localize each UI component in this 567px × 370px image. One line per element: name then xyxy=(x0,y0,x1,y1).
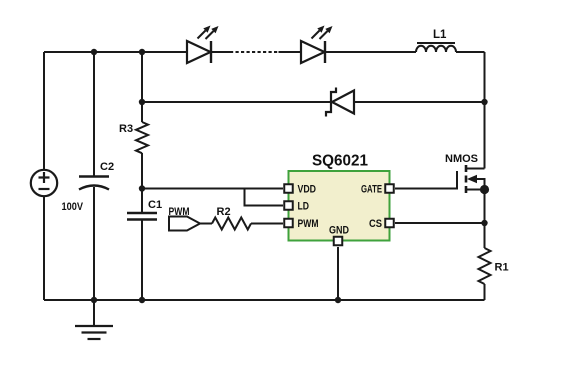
LED D2 xyxy=(301,26,333,64)
wire R3 column to resistor xyxy=(141,102,143,122)
svg-text:GATE: GATE xyxy=(361,184,382,196)
svg-text:R3: R3 xyxy=(119,123,133,135)
resistor R3 xyxy=(136,122,148,153)
pin VDD xyxy=(284,184,293,193)
svg-text:PWM: PWM xyxy=(169,206,190,218)
capacitor C2 xyxy=(79,177,109,190)
svg-text:C1: C1 xyxy=(148,199,162,211)
IC U1 SQ6021 body xyxy=(289,171,390,241)
pin LD xyxy=(284,201,293,210)
port PWM input flag xyxy=(169,217,200,231)
junction dot VDD node xyxy=(139,185,145,191)
transistor Q1 NMOS xyxy=(466,165,489,194)
wire left column upper xyxy=(43,52,45,170)
voltage source V1 100V xyxy=(31,170,57,196)
svg-text:LD: LD xyxy=(298,201,310,213)
wire NMOS source to CS node xyxy=(484,190,486,249)
wire LD branch xyxy=(245,189,284,206)
wire top rail left segment xyxy=(44,51,187,53)
wire PWM flag to R2 xyxy=(200,223,212,225)
capacitor C1 xyxy=(127,213,157,220)
pin CS xyxy=(385,219,394,228)
wire GATE net xyxy=(395,171,457,189)
svg-text:NMOS: NMOS xyxy=(445,153,478,165)
svg-text:R2: R2 xyxy=(217,206,231,218)
svg-text:VDD: VDD xyxy=(298,184,317,196)
LED D1 xyxy=(187,26,219,64)
svg-text:100V: 100V xyxy=(62,201,84,213)
node A junction dot (top rail / C2) xyxy=(91,49,97,55)
svg-text:GND: GND xyxy=(329,225,349,237)
wire right column upper xyxy=(484,52,486,169)
svg-text:SQ6021: SQ6021 xyxy=(312,153,368,170)
svg-text:CS: CS xyxy=(369,218,382,230)
wire second rail to zener xyxy=(142,101,331,103)
wire dashed LED string xyxy=(230,51,279,53)
wire bottom rail xyxy=(44,299,485,301)
wire dashed end to LED D2 xyxy=(279,51,302,53)
pin GATE xyxy=(385,184,394,193)
wire VDD node to C1 xyxy=(141,189,143,214)
wire C1 to bottom rail xyxy=(141,220,143,301)
wire LED D2 to L1 xyxy=(325,51,416,53)
resistor R1 xyxy=(479,248,491,284)
junction dot GND stem / bottom rail xyxy=(335,297,341,303)
inductor L1 xyxy=(416,43,456,52)
wire zener to right column xyxy=(354,101,485,103)
junction dot top rail / R3 column xyxy=(139,49,145,55)
junction dot C2/bottom rail xyxy=(91,297,97,303)
pin PWM xyxy=(284,219,293,228)
wire C2 column lower xyxy=(93,187,95,300)
junction dot right column / second rail xyxy=(481,99,487,105)
wire R2 to PWM pin xyxy=(251,223,283,225)
wire R1 to bottom rail xyxy=(484,284,486,300)
svg-text:C2: C2 xyxy=(100,161,114,173)
pin GND xyxy=(334,237,343,246)
svg-text:R1: R1 xyxy=(495,262,509,274)
wire R3 to VDD node xyxy=(141,153,143,189)
wire GND pin stem xyxy=(337,247,339,300)
wire L1 to right column xyxy=(456,51,485,53)
wire C2 column upper xyxy=(93,52,95,176)
junction dot C1/bottom rail xyxy=(139,297,145,303)
junction dot R3 column / second rail xyxy=(139,99,145,105)
zener diode D3 xyxy=(326,88,354,117)
wire LED D1 to dashed xyxy=(211,51,230,53)
ground xyxy=(75,300,113,339)
wire VDD net xyxy=(142,188,283,190)
junction dot CS node xyxy=(481,220,487,226)
wire CS net xyxy=(395,222,485,224)
wire R3 column top xyxy=(141,52,143,102)
resistor R2 xyxy=(212,218,251,230)
wire left column lower xyxy=(43,196,45,300)
svg-text:L1: L1 xyxy=(433,29,447,41)
svg-text:PWM: PWM xyxy=(298,218,319,230)
